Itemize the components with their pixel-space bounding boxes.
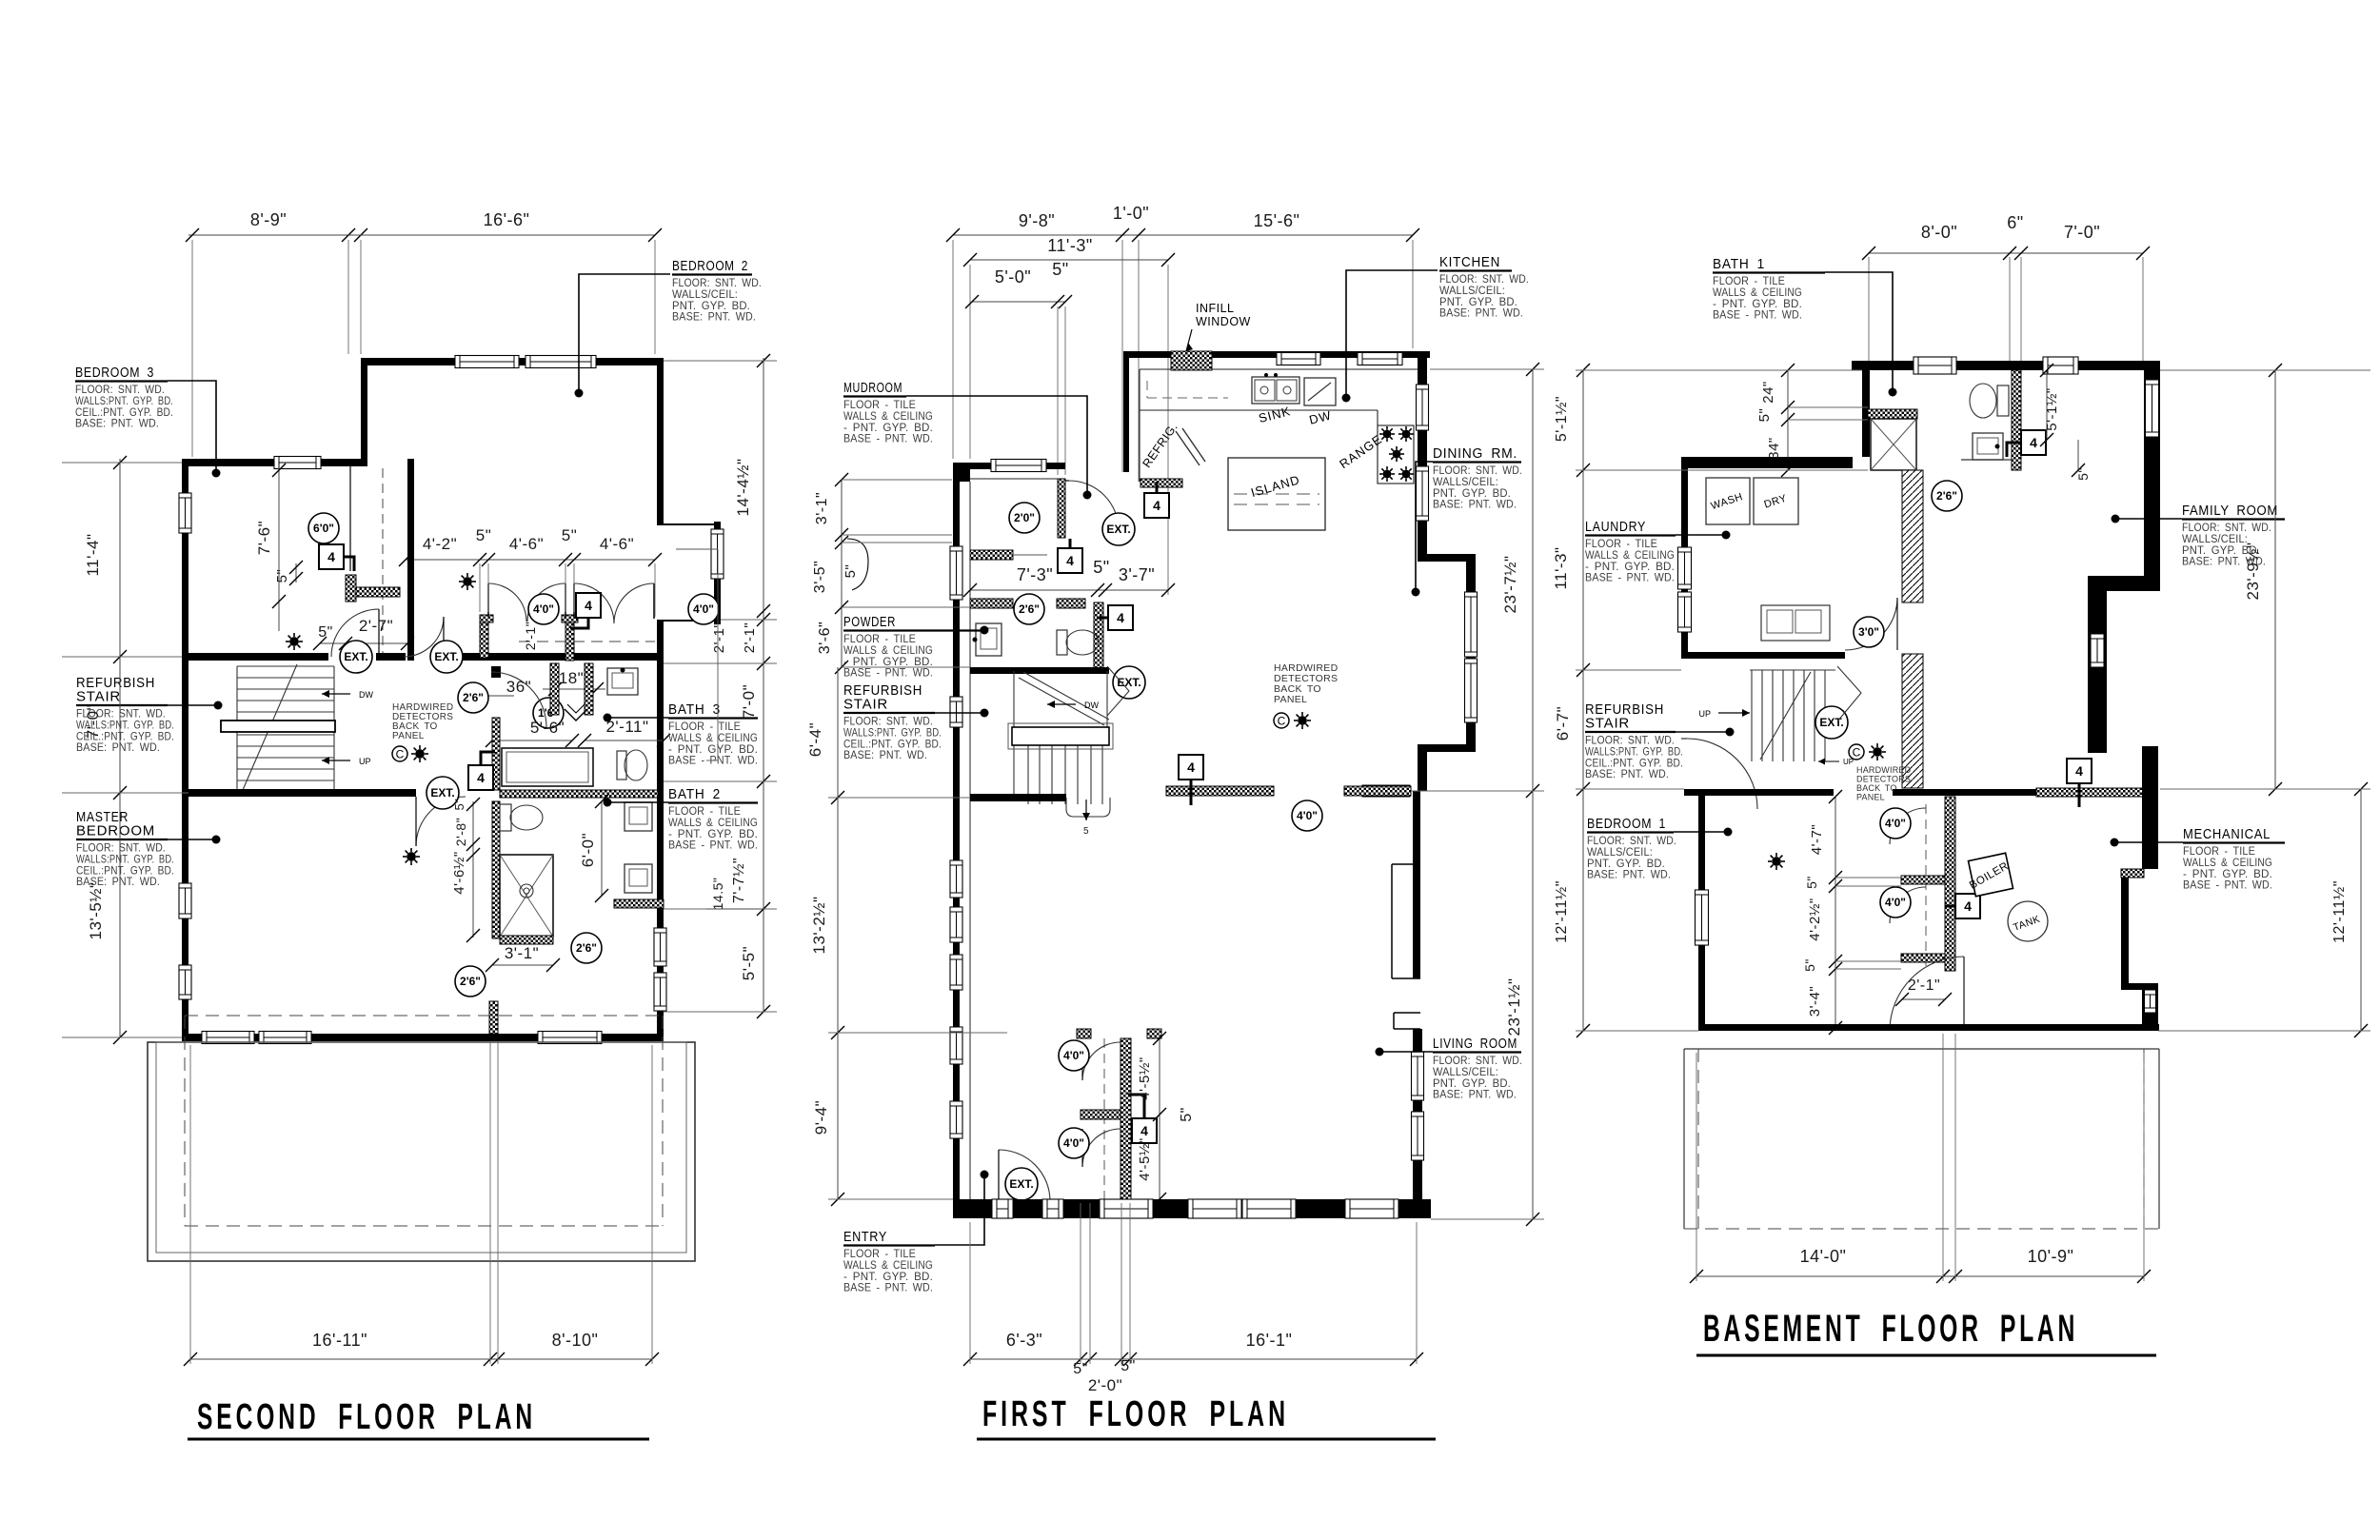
east wall step out [1418, 554, 1476, 562]
west wall corner box [953, 463, 970, 482]
svg-text:4: 4 [585, 598, 592, 613]
svg-text:11'-3": 11'-3" [1047, 236, 1093, 255]
svg-text:EXT.: EXT. [1106, 523, 1130, 536]
powder bottom wall [970, 667, 1109, 674]
stair first floor [1014, 671, 1109, 804]
svg-text:8'-0": 8'-0" [1921, 223, 1957, 242]
svg-text:5'-1½": 5'-1½" [2044, 387, 2060, 430]
svg-text:2'-11": 2'-11" [605, 718, 648, 736]
svg-text:INFILL: INFILL [1196, 302, 1235, 315]
svg-text:4'0": 4'0" [1885, 896, 1906, 909]
svg-text:6'0": 6'0" [313, 522, 334, 535]
bedroom2 top windows [455, 356, 519, 368]
svg-text:BASE: PNT. WD.: BASE: PNT. WD. [1585, 767, 1669, 780]
svg-text:7'-7½": 7'-7½" [731, 858, 747, 903]
svg-text:DETECTORS: DETECTORS [1856, 775, 1911, 784]
svg-text:4'-2": 4'-2" [423, 535, 457, 553]
bottom wall first floor [953, 1199, 1431, 1218]
bedroom3 closet wall [407, 459, 414, 661]
svg-text:3'-7": 3'-7" [1119, 565, 1155, 584]
bedroom1 door arc [1687, 739, 1757, 809]
stair dw arrow [1047, 703, 1076, 705]
east exterior wall [657, 358, 664, 1041]
east wall step back [1418, 744, 1476, 752]
svg-text:4: 4 [1066, 553, 1074, 568]
svg-text:2'-8": 2'-8" [453, 818, 468, 846]
svg-text:10'-9": 10'-9" [2028, 1247, 2074, 1266]
svg-text:12'-11½": 12'-11½" [2331, 880, 2348, 943]
dim 11-3 [970, 259, 1168, 261]
bath1 right ext 5-1 [2046, 370, 2048, 440]
svg-text:LIVING ROOM: LIVING ROOM [1433, 1036, 1517, 1052]
bath2 6-0 dim [601, 801, 603, 896]
svg-text:2'6": 2'6" [1936, 489, 1957, 503]
bath3 toilet [617, 751, 626, 780]
dims 5-0 and 5 [972, 301, 1065, 303]
svg-text:4'0": 4'0" [1063, 1136, 1084, 1150]
stair UP arrow [322, 760, 350, 761]
svg-text:4: 4 [1140, 1123, 1148, 1138]
svg-text:C: C [1278, 715, 1286, 728]
stair door EXT [1113, 666, 1145, 699]
svg-text:BEDROOM 1: BEDROOM 1 [1587, 816, 1666, 832]
svg-text:2'-1": 2'-1" [742, 622, 758, 653]
mech door [1872, 1022, 1961, 1033]
svg-text:EXT.: EXT. [430, 786, 454, 800]
svg-text:BATH 3: BATH 3 [668, 701, 721, 718]
closet mid hatched wall [1081, 1110, 1121, 1119]
refrigerator [1176, 431, 1200, 465]
svg-text:2'-7": 2'-7" [359, 617, 393, 635]
svg-text:36": 36" [506, 678, 531, 696]
roof outline below [148, 1042, 695, 1261]
stair south wall [970, 794, 1066, 801]
svg-text:MECHANICAL: MECHANICAL [2183, 826, 2271, 842]
svg-text:4: 4 [1153, 498, 1160, 513]
washer dryer [1706, 478, 1750, 524]
svg-text:7'-6": 7'-6" [255, 521, 273, 555]
svg-text:5": 5" [274, 569, 290, 583]
west exterior wall first floor [953, 463, 960, 1218]
mudroom east wall hatched [1058, 479, 1065, 538]
svg-text:3'-6": 3'-6" [817, 622, 833, 654]
4 box bath3 [468, 765, 493, 790]
svg-text:BASE: PNT. WD.: BASE: PNT. WD. [1433, 1088, 1517, 1101]
svg-text:5": 5" [562, 526, 578, 544]
svg-text:PANEL: PANEL [1856, 793, 1885, 802]
4 box bath1 [2021, 430, 2046, 455]
dining south hatched wall [1362, 785, 1410, 797]
living room bump [1392, 863, 1420, 865]
bottom closets first floor [1077, 1029, 1091, 1038]
bath1 shower [1868, 409, 1917, 419]
svg-text:BACK TO: BACK TO [1856, 783, 1897, 793]
bedroom1 top wall hatched part [2036, 788, 2144, 797]
entry door [999, 1150, 1050, 1201]
mudroom top wall [970, 463, 1065, 469]
svg-text:STAIR: STAIR [76, 689, 121, 705]
bath2 shower bottom wall hatched [500, 936, 553, 944]
svg-text:BASE - PNT. WD.: BASE - PNT. WD. [1585, 571, 1675, 584]
svg-text:11'-3": 11'-3" [1552, 546, 1570, 589]
mudroom door arc [1069, 481, 1119, 530]
kitchen top windows [1277, 353, 1320, 365]
bath1 west wall [1862, 370, 1870, 457]
west wall windows [179, 493, 191, 533]
svg-text:DW: DW [1084, 701, 1099, 710]
closet smoke box 4 [576, 593, 601, 618]
svg-text:FAMILY ROOM: FAMILY ROOM [2182, 503, 2278, 519]
east wall below dining [1413, 791, 1420, 864]
hall door arcs [331, 609, 379, 657]
east wall lower [2142, 746, 2158, 869]
bottom wall second floor [182, 1034, 664, 1041]
4-0 closet circles [528, 594, 559, 624]
bath2 vanities [625, 802, 652, 831]
svg-text:4: 4 [2075, 763, 2083, 779]
svg-text:EXT.: EXT. [344, 650, 367, 663]
left dim col 6-4 13-2 9-4 [837, 667, 839, 1199]
svg-text:23'-1½": 23'-1½" [1505, 978, 1523, 1037]
svg-text:4'-5½": 4'-5½" [1137, 1056, 1153, 1099]
bath3 tub [502, 748, 593, 786]
svg-text:BEDROOM: BEDROOM [76, 823, 155, 839]
svg-text:5'-1½": 5'-1½" [1554, 396, 1570, 442]
svg-text:5": 5" [1804, 876, 1819, 889]
svg-text:DINING RM.: DINING RM. [1433, 445, 1517, 462]
svg-text:2'6": 2'6" [1019, 602, 1040, 616]
closet door marker 6-0 [308, 513, 339, 543]
left dim col 3-1 3-5 3-6 [841, 480, 843, 667]
svg-text:14'-0": 14'-0" [1800, 1247, 1847, 1266]
svg-text:ENTRY: ENTRY [843, 1229, 887, 1245]
svg-text:STAIR: STAIR [1585, 716, 1630, 732]
svg-text:7'-0": 7'-0" [84, 704, 102, 739]
svg-text:6'-0": 6'-0" [579, 833, 597, 867]
bath2 stub wall hatched [489, 1003, 498, 1034]
svg-text:BASE - PNT. WD.: BASE - PNT. WD. [843, 666, 933, 680]
bath2 toilet [500, 804, 511, 831]
svg-text:5": 5" [1121, 1358, 1136, 1374]
bath3 divider wall hatched [492, 718, 500, 790]
svg-text:5": 5" [1179, 1107, 1195, 1122]
svg-text:13'-2½": 13'-2½" [810, 897, 828, 955]
bottom dims 6-3 16-1 [970, 1358, 1417, 1360]
closet dim column [1835, 797, 1836, 1031]
closet bifold arcs [488, 583, 526, 622]
svg-text:EXT.: EXT. [1009, 1177, 1033, 1191]
svg-text:BEDROOM 2: BEDROOM 2 [672, 258, 748, 274]
svg-text:LAUNDRY: LAUNDRY [1585, 519, 1646, 535]
BASEMENT FLOOR PLAN group [1552, 213, 2370, 1355]
svg-text:4'-6½": 4'-6½" [451, 851, 467, 894]
closet divider hatched walls [480, 615, 488, 658]
EXT circles hall [340, 641, 372, 673]
stair DW arrow [322, 693, 350, 695]
svg-text:4'0": 4'0" [1885, 817, 1906, 830]
powder toilet [1057, 630, 1067, 655]
svg-text:5'-6": 5'-6" [530, 719, 565, 737]
svg-text:2'6": 2'6" [576, 941, 597, 955]
svg-text:4: 4 [1964, 898, 1972, 914]
east wall bottom step [2121, 983, 2144, 990]
boiler [1968, 853, 2013, 896]
masonry wall diagonal hatch [1902, 470, 1923, 602]
svg-text:7'-3": 7'-3" [1017, 565, 1053, 584]
svg-text:BATH 1: BATH 1 [1713, 256, 1765, 272]
svg-text:UP: UP [359, 757, 371, 766]
FIRST FLOOR PLAN group [806, 204, 1544, 1439]
kitchen sink [1252, 377, 1299, 404]
svg-text:16'-1": 16'-1" [1246, 1331, 1293, 1350]
bottom stub hatched [489, 1001, 498, 1034]
svg-text:2'6": 2'6" [463, 691, 484, 704]
top dimension line 8-9 / 16-6 [188, 234, 352, 236]
svg-text:PANEL: PANEL [1274, 694, 1307, 705]
bedroom3 top wall [182, 459, 367, 466]
bath2 circles [571, 933, 602, 963]
svg-text:4'0": 4'0" [693, 602, 714, 616]
svg-text:POWDER: POWDER [843, 614, 896, 630]
notch [1393, 1013, 1395, 1029]
master door arc [416, 797, 466, 846]
svg-text:4: 4 [1187, 760, 1195, 775]
SECOND FLOOR PLAN group [62, 210, 777, 1439]
top dims 8-0 6 7-0 [1869, 252, 2143, 254]
hall wall [182, 653, 328, 661]
right dim column [763, 358, 764, 1012]
bottom dims 16-11 8-10 [190, 1358, 652, 1360]
east wall dining [1418, 351, 1427, 554]
svg-text:2'6": 2'6" [460, 975, 481, 988]
svg-text:BASE: PNT. WD.: BASE: PNT. WD. [843, 748, 927, 761]
foundation outline [1684, 1048, 2159, 1050]
svg-text:12'-11½": 12'-11½" [1554, 880, 1570, 943]
svg-text:3'0": 3'0" [1858, 625, 1879, 639]
svg-text:HARDWIRED: HARDWIRED [1856, 765, 1912, 775]
svg-text:14'-4½": 14'-4½" [734, 459, 752, 517]
bath3 sink vanity [607, 668, 638, 695]
top dims 9-8 1-0 15-6 [953, 234, 1413, 236]
svg-text:13'-5½": 13'-5½" [87, 882, 105, 940]
bath3 entry walls hatched [550, 663, 559, 715]
svg-text:9'-4": 9'-4" [812, 1100, 830, 1135]
laundry cabinet [1761, 605, 1830, 641]
svg-text:5": 5" [476, 526, 492, 544]
svg-text:FIRST FLOOR PLAN: FIRST FLOOR PLAN [982, 1394, 1289, 1434]
closet dashed line [382, 468, 384, 653]
svg-text:16'-6": 16'-6" [484, 210, 530, 229]
4 box bed3 closet [319, 544, 344, 569]
bottom wall windows [992, 1199, 1013, 1218]
svg-text:5": 5" [2075, 467, 2091, 481]
range [1378, 425, 1414, 484]
svg-text:2'-1": 2'-1" [523, 622, 538, 650]
2-1 dim [1902, 998, 1945, 1000]
svg-text:2'0": 2'0" [1014, 511, 1035, 524]
svg-text:5'-5": 5'-5" [740, 946, 758, 980]
infill window hatched [1171, 351, 1212, 370]
svg-text:BASE: PNT. WD.: BASE: PNT. WD. [1587, 868, 1671, 881]
closet jamb lines [487, 583, 489, 617]
svg-text:4'-7": 4'-7" [1809, 824, 1825, 855]
svg-text:5'-0": 5'-0" [995, 267, 1031, 286]
kitchen top wall [1123, 351, 1430, 358]
left dim column [119, 459, 121, 1037]
up hardwired note [1818, 760, 1839, 762]
bath2 shower [500, 855, 553, 937]
svg-text:3'-5": 3'-5" [812, 561, 828, 593]
svg-text:DW: DW [359, 690, 373, 700]
bedroom1 top wall [1684, 789, 1834, 796]
svg-text:14.5": 14.5" [710, 878, 725, 911]
bath3/bath2 wall hatched [500, 790, 658, 798]
sun master [403, 848, 420, 865]
svg-text:KITCHEN: KITCHEN [1439, 254, 1500, 270]
svg-text:PANEL: PANEL [392, 731, 425, 741]
svg-text:23'-9½": 23'-9½" [2244, 543, 2262, 601]
svg-text:BATH 2: BATH 2 [668, 786, 721, 802]
misc line right bay [717, 549, 719, 760]
svg-text:11'-4": 11'-4" [84, 533, 102, 576]
closet doors [1082, 1042, 1121, 1080]
basement closet walls [1945, 797, 1955, 971]
left dim col basement [1582, 370, 1584, 1031]
svg-text:5": 5" [843, 564, 859, 579]
master bedroom top wall [188, 789, 416, 797]
kitchen west wall [1123, 351, 1129, 472]
bedroom1 west wall [1698, 796, 1705, 1031]
powder east wall hatched [1094, 602, 1103, 669]
svg-text:EXT.: EXT. [1117, 676, 1140, 689]
closet rod dashed [519, 641, 655, 642]
svg-text:15'-6": 15'-6" [1254, 211, 1300, 230]
laundry west wall [1681, 468, 1688, 655]
svg-text:5": 5" [1802, 958, 1817, 972]
stair second floor [237, 664, 334, 792]
svg-text:BASE: PNT. WD.: BASE: PNT. WD. [672, 310, 756, 324]
svg-text:BASE - PNT. WD.: BASE - PNT. WD. [843, 1281, 933, 1294]
svg-text:BEDROOM 3: BEDROOM 3 [75, 365, 154, 381]
powder dims 7-3 5 3-7 [970, 589, 1168, 591]
dishwasher [1304, 378, 1336, 405]
closet dims 4-5 [1159, 1038, 1160, 1199]
closet row wall segments [455, 653, 664, 661]
svg-text:2'-1": 2'-1" [711, 622, 727, 653]
basement bottom wall [1698, 1024, 2159, 1031]
svg-text:WINDOW: WINDOW [1196, 315, 1251, 328]
svg-text:5": 5" [1052, 260, 1068, 279]
bedroom2 top wall [361, 358, 664, 365]
bath1 sink [1973, 433, 2003, 460]
svg-text:8'-10": 8'-10" [552, 1331, 599, 1350]
svg-text:4'0": 4'0" [533, 602, 554, 616]
east wall windows [654, 928, 666, 966]
west wall windows [950, 546, 962, 600]
svg-text:8'-9": 8'-9" [250, 210, 287, 229]
counter dashed [1147, 397, 1228, 399]
laundry bottom wall [1681, 652, 1845, 659]
linen chevron [565, 709, 587, 721]
bath2 right wall hatched 14.5 [614, 899, 664, 908]
bath2 dividing wall vertical hatched [492, 801, 500, 938]
svg-text:BASE - PNT. WD.: BASE - PNT. WD. [668, 839, 758, 852]
svg-text:4: 4 [1117, 610, 1124, 625]
tank [2008, 901, 2048, 941]
svg-text:C: C [396, 748, 405, 761]
bath1 right dims 5-1 5 [2046, 370, 2048, 440]
svg-text:2'-0": 2'-0" [1088, 1376, 1122, 1394]
stair landing bar [221, 721, 335, 732]
EXT door basement [1815, 706, 1848, 739]
svg-text:4'-6": 4'-6" [509, 535, 544, 553]
svg-text:BASE: PNT. WD.: BASE: PNT. WD. [1439, 306, 1523, 320]
laundry top wall [1681, 457, 1853, 468]
svg-text:5": 5" [452, 799, 466, 811]
svg-text:16'-11": 16'-11" [312, 1331, 367, 1350]
stair up arrow basement [1718, 712, 1750, 714]
copyright sun basement [1849, 744, 1864, 760]
bath1 divider wall hatched [2012, 370, 2021, 470]
svg-text:6'-7": 6'-7" [1554, 706, 1572, 740]
svg-text:4: 4 [2030, 435, 2037, 450]
svg-text:4'0": 4'0" [1297, 809, 1318, 822]
west step wall [361, 358, 367, 466]
svg-text:1'-0": 1'-0" [1113, 204, 1149, 223]
island [1228, 458, 1325, 530]
svg-text:2'-1": 2'-1" [1908, 977, 1940, 994]
svg-text:5": 5" [1093, 558, 1109, 577]
svg-text:6'-3": 6'-3" [1006, 1331, 1042, 1350]
closet dim row 4-2 5 4-6 5 4-6 [406, 559, 655, 561]
svg-text:STAIR: STAIR [843, 697, 888, 713]
svg-text:UP: UP [1698, 709, 1711, 719]
closet corner hatched walls [346, 575, 356, 602]
svg-text:9'-8": 9'-8" [1019, 211, 1055, 230]
svg-text:23'-7½": 23'-7½" [1501, 556, 1519, 614]
svg-text:BASEMENT FLOOR PLAN: BASEMENT FLOOR PLAN [1703, 1308, 2078, 1350]
svg-text:3'-1": 3'-1" [505, 944, 539, 962]
west exterior wall [182, 459, 188, 1041]
svg-text:4'-5½": 4'-5½" [1137, 1137, 1153, 1180]
svg-text:4'-6": 4'-6" [600, 535, 634, 553]
svg-text:MUDROOM: MUDROOM [843, 380, 902, 396]
basement top wall [1852, 361, 2160, 370]
1-6 and 2-6 circles [458, 682, 488, 713]
svg-text:BASE - PNT. WD.: BASE - PNT. WD. [2183, 879, 2272, 892]
powder top hatched walls [970, 599, 1013, 608]
sun bedroom1 [1768, 853, 1785, 870]
svg-text:SECOND FLOOR PLAN: SECOND FLOOR PLAN [197, 1397, 536, 1437]
svg-text:7'-0": 7'-0" [740, 684, 758, 719]
svg-text:BASE - PNT. WD.: BASE - PNT. WD. [843, 432, 933, 445]
svg-text:4'-2½": 4'-2½" [1807, 898, 1823, 940]
powder sink [976, 623, 1002, 656]
svg-text:3'-1": 3'-1" [814, 492, 830, 524]
laundry door 3-0 [1845, 598, 1897, 650]
svg-text:34": 34" [1766, 437, 1782, 460]
svg-text:5: 5 [1083, 826, 1089, 837]
great room south hatched walls [1166, 786, 1274, 796]
sun bedroom3 [286, 633, 303, 650]
svg-text:24": 24" [1760, 381, 1776, 404]
svg-text:6": 6" [2007, 213, 2023, 232]
svg-text:18": 18" [559, 669, 584, 687]
bottom dims 14-0 10-9 [1696, 1275, 2144, 1277]
svg-text:BASE: PNT. WD.: BASE: PNT. WD. [1433, 498, 1517, 511]
7-6 vertical dim [278, 468, 280, 631]
bath1 toilet [1997, 385, 2009, 416]
